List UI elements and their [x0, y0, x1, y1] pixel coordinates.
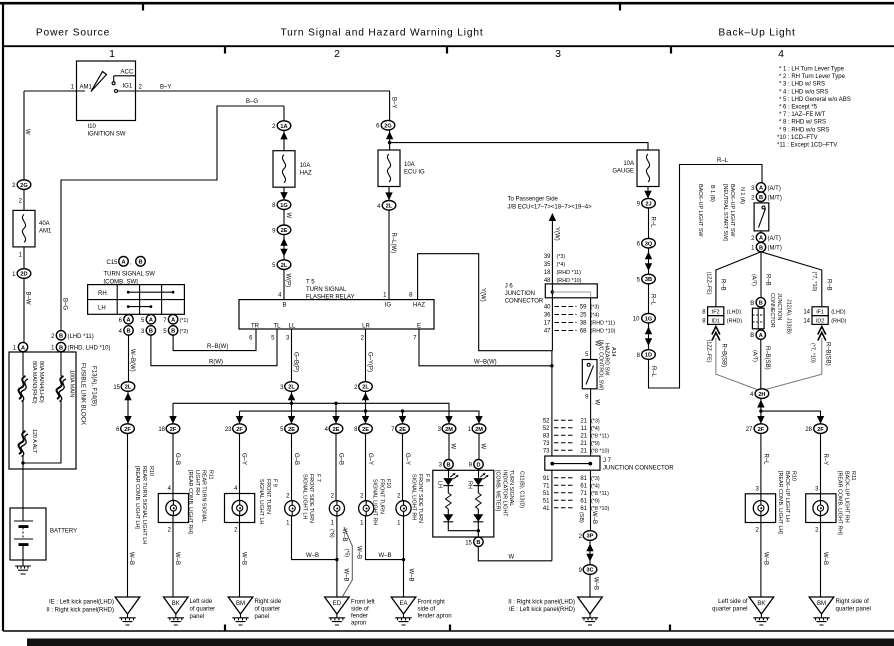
svg-text:3B: 3B — [645, 277, 652, 283]
svg-text:B: B — [171, 329, 175, 335]
svg-text:W–B: W–B — [822, 552, 828, 565]
svg-text:2L: 2L — [281, 263, 288, 269]
svg-text:fender apron: fender apron — [418, 614, 452, 620]
svg-text:W: W — [24, 129, 30, 135]
svg-text:side of: side of — [418, 607, 436, 613]
svg-text:Right side: Right side — [255, 599, 282, 605]
svg-text:W–B(W): W–B(W) — [474, 360, 497, 366]
svg-text:(1ZZ–FE): (1ZZ–FE) — [706, 340, 712, 363]
svg-text:Y(W): Y(W) — [480, 288, 486, 302]
svg-text:TURN SIGNAL SW: TURN SIGNAL SW — [104, 271, 156, 277]
svg-text:2E: 2E — [399, 427, 406, 433]
svg-text:*10 : 1CD–FTV: *10 : 1CD–FTV — [777, 135, 818, 141]
svg-text:Right side of: Right side of — [836, 599, 870, 605]
svg-text:2G: 2G — [20, 183, 27, 189]
svg-text:Back–Up Light: Back–Up Light — [718, 28, 795, 39]
svg-text:quarter panel: quarter panel — [712, 607, 747, 613]
svg-text:(*4): (*4) — [591, 484, 600, 490]
svg-text:B: B — [750, 301, 754, 307]
svg-text:18: 18 — [158, 427, 165, 433]
svg-text:(M/T): (M/T) — [768, 195, 782, 201]
svg-text:(*3): (*3) — [591, 476, 600, 482]
svg-text:F 8: F 8 — [424, 474, 430, 482]
svg-text:(*4): (*4) — [591, 426, 600, 432]
svg-text:R–B(SB): R–B(SB) — [764, 346, 770, 370]
svg-text:R–B(SB): R–B(SB) — [721, 344, 727, 368]
svg-text:W: W — [509, 554, 515, 560]
svg-text:TURN SIGNAL: TURN SIGNAL — [508, 470, 514, 506]
svg-text:81: 81 — [580, 476, 587, 482]
svg-text:R–B(W): R–B(W) — [207, 344, 228, 350]
svg-text:* 3 : LHD w/ SRS: * 3 : LHD w/ SRS — [779, 82, 825, 88]
svg-text:W: W — [450, 444, 456, 450]
svg-text:I10: I10 — [88, 124, 97, 130]
svg-text:4: 4 — [778, 48, 784, 60]
svg-text:(*8 *10): (*8 *10) — [591, 449, 609, 455]
svg-text:W–B: W–B — [174, 552, 180, 565]
svg-text:TURN SIGNAL: TURN SIGNAL — [306, 287, 347, 293]
svg-text:2F: 2F — [817, 427, 824, 433]
svg-text:[REAR COMB. LIGHT LH]: [REAR COMB. LIGHT LH] — [134, 466, 140, 529]
svg-text:G–B(P): G–B(P) — [293, 352, 299, 372]
svg-text:* 8 : RHD w/ SRS: * 8 : RHD w/ SRS — [779, 120, 826, 126]
svg-text:11: 11 — [581, 426, 588, 432]
svg-text:2L: 2L — [386, 204, 393, 210]
svg-text:W–B: W–B — [306, 553, 319, 559]
svg-text:A: A — [759, 186, 763, 192]
svg-text:T 5: T 5 — [306, 280, 315, 286]
svg-text:FRONT SIDE TURN: FRONT SIDE TURN — [417, 474, 423, 523]
svg-text:TR: TR — [251, 324, 260, 330]
svg-text:RH: RH — [466, 481, 472, 489]
svg-text:18: 18 — [544, 270, 551, 276]
svg-text:CONNECTOR: CONNECTOR — [505, 298, 544, 304]
svg-text:* 7 : 1AZ–FE M/T: * 7 : 1AZ–FE M/T — [779, 112, 826, 118]
svg-text:[A/C CONTROL SW]: [A/C CONTROL SW] — [597, 340, 603, 390]
svg-text:B: B — [759, 301, 763, 307]
svg-text:REAR TURN SIGNAL LIGHT LH: REAR TURN SIGNAL LIGHT LH — [141, 466, 147, 544]
svg-text:17: 17 — [544, 321, 551, 327]
svg-text:BM: BM — [236, 601, 245, 607]
svg-text:panel: panel — [255, 614, 270, 620]
svg-text:A: A — [759, 333, 763, 339]
svg-text:(*8 *11): (*8 *11) — [591, 434, 609, 440]
svg-text:10A: 10A — [623, 161, 634, 167]
svg-text:2M: 2M — [445, 427, 453, 433]
svg-text:73: 73 — [543, 449, 550, 455]
svg-text:G–B: G–B — [174, 453, 180, 465]
svg-text:21: 21 — [580, 434, 587, 440]
svg-text:47: 47 — [544, 329, 551, 335]
svg-text:SIGNAL LIGHT RH: SIGNAL LIGHT RH — [372, 479, 378, 525]
svg-text:F 9: F 9 — [272, 479, 278, 487]
svg-text:80A MAIN3(RHD): 80A MAIN3(RHD) — [31, 361, 37, 404]
svg-text:F 7: F 7 — [315, 474, 321, 482]
svg-text:21: 21 — [580, 441, 587, 447]
svg-text:R11: R11 — [850, 471, 856, 481]
svg-text:II : Right kick panel(LHD): II : Right kick panel(LHD) — [508, 600, 575, 606]
svg-text:A: A — [171, 318, 175, 324]
svg-text:A: A — [21, 345, 25, 351]
svg-text:(RHD): (RHD) — [727, 318, 742, 324]
svg-text:W–B: W–B — [240, 552, 246, 565]
svg-text:2G: 2G — [384, 123, 391, 129]
svg-text:(*9): (*9) — [591, 499, 600, 505]
svg-text:91: 91 — [543, 476, 550, 482]
svg-text:1A: 1A — [280, 124, 287, 130]
svg-text:R–Y: R–Y — [822, 454, 828, 466]
svg-text:* 6 : Except *5: * 6 : Except *5 — [779, 105, 818, 111]
svg-text:R–L: R–L — [763, 454, 769, 466]
svg-text:RH: RH — [98, 291, 107, 297]
svg-text:23: 23 — [225, 427, 232, 433]
svg-text:quarter panel: quarter panel — [836, 607, 871, 613]
svg-text:2L: 2L — [288, 385, 295, 391]
svg-text:IE : Left kick panel(RHD): IE : Left kick panel(RHD) — [509, 607, 575, 613]
svg-text:ID1: ID1 — [712, 318, 720, 324]
svg-text:JUNCTION: JUNCTION — [776, 293, 782, 320]
svg-text:Front right: Front right — [418, 600, 446, 606]
svg-text:R–L: R–L — [650, 294, 656, 306]
svg-text:HAZARD SW: HAZARD SW — [604, 343, 610, 376]
svg-text:R–B(SB): R–B(SB) — [825, 342, 831, 366]
svg-text:II : Right kick panel(RHD): II : Right kick panel(RHD) — [46, 608, 114, 614]
svg-text:(RHD): (RHD) — [831, 318, 846, 324]
svg-text:* 5 : LHD General w/o ABS: * 5 : LHD General w/o ABS — [779, 97, 851, 103]
svg-text:INDICATOR LIGHT: INDICATOR LIGHT — [501, 470, 507, 517]
svg-text:To Passenger Side: To Passenger Side — [508, 197, 559, 203]
svg-text:W–B: W–B — [355, 546, 361, 559]
svg-text:* 2 : RH Turn Lever Type: * 2 : RH Turn Lever Type — [779, 74, 846, 80]
svg-text:BACK–UP LIGHT SW: BACK–UP LIGHT SW — [729, 184, 735, 237]
svg-text:N 1 (A): N 1 (A) — [739, 187, 745, 204]
svg-text:Left side of: Left side of — [718, 599, 748, 605]
svg-text:1G: 1G — [280, 203, 287, 209]
svg-text:LR: LR — [362, 324, 370, 330]
svg-text:W–B: W–B — [763, 552, 769, 565]
svg-text:15: 15 — [113, 385, 120, 391]
svg-text:HAZ: HAZ — [300, 171, 312, 177]
svg-text:2F: 2F — [758, 427, 765, 433]
svg-text:B: B — [446, 462, 450, 468]
svg-text:51: 51 — [543, 491, 550, 497]
svg-text:CONNECTOR: CONNECTOR — [769, 293, 775, 328]
svg-text:[REAR COMB. LIGHT RH]: [REAR COMB. LIGHT RH] — [837, 471, 843, 535]
svg-text:(*9): (*9) — [591, 441, 600, 447]
svg-text:61: 61 — [580, 499, 587, 505]
svg-text:LH: LH — [436, 481, 442, 488]
svg-text:BK: BK — [172, 601, 180, 607]
svg-text:SIGNAL LIGHT RH: SIGNAL LIGHT RH — [410, 474, 416, 520]
svg-text:REAR TURN SIGNAL: REAR TURN SIGNAL — [201, 470, 207, 523]
svg-text:(RHD *10): (RHD *10) — [557, 278, 582, 284]
svg-text:2E: 2E — [288, 427, 295, 433]
svg-text:A: A — [126, 318, 130, 324]
svg-text:R–B: R–B — [826, 279, 832, 291]
svg-text:71: 71 — [543, 484, 550, 490]
svg-text:apron: apron — [351, 621, 366, 627]
svg-text:1: 1 — [109, 48, 115, 60]
svg-text:W–B: W–B — [379, 553, 392, 559]
svg-text:B–G: B–G — [62, 298, 68, 310]
svg-text:(*1): (*1) — [180, 318, 189, 324]
svg-text:B: B — [59, 334, 63, 340]
svg-text:G–Y(P): G–Y(P) — [367, 352, 373, 372]
svg-text:G–Y: G–Y — [367, 453, 373, 465]
svg-text:2L: 2L — [125, 385, 132, 391]
svg-text:Turn Signal and Hazard Warning: Turn Signal and Hazard Warning Light — [280, 28, 483, 39]
svg-text:R–B: R–B — [720, 279, 726, 291]
svg-text:side of: side of — [351, 607, 369, 613]
svg-text:AM1: AM1 — [39, 229, 52, 235]
svg-text:2E: 2E — [362, 427, 369, 433]
svg-text:R–L: R–L — [650, 217, 656, 229]
svg-text:38: 38 — [580, 321, 587, 327]
svg-text:J/B ECU<17–7><18–7><19–4>: J/B ECU<17–7><18–7><19–4> — [508, 205, 593, 211]
svg-text:(*7, *10): (*7, *10) — [810, 343, 816, 363]
svg-text:R10: R10 — [791, 471, 797, 481]
svg-text:of quarter: of quarter — [255, 607, 281, 613]
svg-text:10A: 10A — [300, 163, 311, 169]
svg-text:R–L(W): R–L(W) — [390, 233, 396, 254]
svg-text:[REAR COMB. LIGHT RH]: [REAR COMB. LIGHT RH] — [187, 470, 193, 534]
svg-text:(A/T): (A/T) — [752, 350, 758, 362]
svg-text:A: A — [759, 236, 763, 242]
svg-text:1D: 1D — [645, 353, 652, 359]
svg-text:A: A — [149, 318, 153, 324]
svg-text:(*4): (*4) — [591, 313, 600, 319]
svg-text:W–B: W–B — [343, 569, 349, 582]
svg-text:(M/T): (M/T) — [768, 246, 782, 252]
svg-text:IG1: IG1 — [123, 84, 133, 90]
svg-text:(*8 *11): (*8 *11) — [591, 491, 609, 497]
svg-text:2F: 2F — [170, 427, 177, 433]
svg-text:Y(W): Y(W) — [553, 227, 559, 241]
svg-text:(A/T): (A/T) — [751, 274, 757, 286]
svg-text:10A: 10A — [404, 162, 415, 168]
svg-text:IF2: IF2 — [712, 310, 720, 316]
svg-text:BK: BK — [757, 601, 765, 607]
svg-text:(A/T): (A/T) — [768, 236, 781, 242]
svg-text:120 A ALT: 120 A ALT — [31, 429, 37, 454]
svg-text:21: 21 — [580, 449, 587, 455]
svg-text:35: 35 — [544, 262, 551, 268]
svg-text:(SB): (SB) — [578, 512, 584, 523]
svg-text:(RHD *10): (RHD *10) — [591, 329, 616, 335]
svg-text:R10: R10 — [148, 466, 154, 476]
svg-text:FUSIBLE LINK BLOCK: FUSIBLE LINK BLOCK — [80, 363, 86, 425]
svg-text:3: 3 — [555, 48, 561, 60]
svg-text:10: 10 — [633, 317, 640, 323]
svg-text:FLASHER RELAY: FLASHER RELAY — [306, 295, 355, 301]
svg-text:IG: IG — [385, 303, 392, 309]
svg-text:A14: A14 — [610, 347, 616, 357]
svg-text:71: 71 — [580, 491, 587, 497]
svg-text:36: 36 — [544, 313, 551, 319]
svg-text:C15: C15 — [107, 260, 119, 266]
svg-text:15: 15 — [465, 540, 472, 546]
svg-text:IF1: IF1 — [816, 310, 824, 316]
svg-text:fender: fender — [351, 614, 368, 620]
svg-text:J 6: J 6 — [505, 283, 514, 289]
svg-text:B–W: B–W — [25, 292, 31, 305]
svg-text:LL: LL — [289, 324, 296, 330]
svg-text:52: 52 — [543, 419, 550, 425]
svg-text:B–Y: B–Y — [390, 97, 396, 108]
svg-text:C11(B), C13(D): C11(B), C13(D) — [519, 471, 525, 508]
svg-text:27: 27 — [746, 427, 753, 433]
svg-text:(LHD): (LHD) — [831, 310, 846, 316]
svg-text:W(P): W(P) — [285, 274, 291, 288]
svg-text:A: A — [121, 260, 125, 266]
svg-text:FRONT TURN: FRONT TURN — [265, 479, 271, 514]
svg-text:ID2: ID2 — [816, 318, 824, 324]
svg-text:80A MAIN4(LHD): 80A MAIN4(LHD) — [38, 361, 44, 403]
svg-text:of quarter: of quarter — [190, 607, 216, 613]
svg-text:W: W — [285, 213, 291, 219]
svg-text:ECU IG: ECU IG — [404, 170, 425, 176]
svg-text:Front left: Front left — [351, 600, 375, 606]
svg-text:[REAR COMB. LIGHT LH]: [REAR COMB. LIGHT LH] — [777, 471, 783, 534]
svg-text:G–B: G–B — [293, 453, 299, 465]
svg-text:D: D — [476, 462, 480, 468]
svg-text:(*4): (*4) — [557, 262, 566, 268]
svg-text:G–Y: G–Y — [404, 453, 410, 465]
svg-text:G–B: G–B — [338, 453, 344, 465]
svg-text:3Q: 3Q — [645, 241, 653, 247]
svg-text:2E: 2E — [333, 427, 340, 433]
svg-text:W–B: W–B — [128, 552, 134, 565]
svg-text:R(W): R(W) — [209, 359, 223, 365]
svg-text:14: 14 — [803, 318, 810, 324]
svg-text:14: 14 — [803, 310, 810, 316]
svg-text:W–B(W): W–B(W) — [129, 349, 135, 372]
svg-text:2E: 2E — [281, 228, 288, 234]
svg-text:JUNCTION: JUNCTION — [505, 291, 535, 297]
svg-text:(A/T): (A/T) — [768, 186, 781, 192]
svg-text:2J: 2J — [645, 201, 651, 207]
svg-text:GAUGE: GAUGE — [612, 169, 634, 175]
svg-text:*11 : Except 1CD–FTV: *11 : Except 1CD–FTV — [777, 143, 837, 149]
svg-text:LH: LH — [98, 306, 106, 312]
svg-text:R–L: R–L — [717, 158, 729, 164]
svg-text:Left side: Left side — [190, 599, 213, 605]
svg-text:100A MAIN: 100A MAIN — [69, 370, 75, 397]
svg-text:40: 40 — [544, 305, 551, 311]
svg-text:3C: 3C — [586, 568, 593, 574]
svg-text:B–G: B–G — [246, 99, 258, 105]
svg-text:2L: 2L — [362, 385, 369, 391]
svg-text:BACK–UP LIGHT RH: BACK–UP LIGHT RH — [843, 471, 849, 523]
svg-text:R–B: R–B — [765, 274, 771, 286]
svg-text:(*3): (*3) — [591, 305, 600, 311]
svg-text:(*2): (*2) — [180, 329, 189, 335]
svg-text:BACK–UP LIGHT SW: BACK–UP LIGHT SW — [697, 184, 703, 237]
svg-text:panel: panel — [190, 614, 205, 620]
svg-text:BACK–UP LIGHT LH: BACK–UP LIGHT LH — [784, 471, 790, 522]
svg-text:73: 73 — [543, 441, 550, 447]
svg-text:FRONT TURN: FRONT TURN — [378, 479, 384, 514]
svg-text:B: B — [759, 245, 763, 251]
svg-text:SIGNAL LIGHT LH: SIGNAL LIGHT LH — [301, 474, 307, 519]
svg-text:LIGHT RH: LIGHT RH — [194, 470, 200, 495]
svg-text:(*7, *10): (*7, *10) — [811, 272, 817, 292]
svg-text:TL: TL — [273, 324, 281, 330]
svg-text:B: B — [126, 329, 130, 335]
svg-text:3P: 3P — [587, 534, 594, 540]
svg-text:(RHD *11): (RHD *11) — [557, 270, 582, 276]
svg-text:2F: 2F — [236, 427, 243, 433]
svg-text:52: 52 — [543, 426, 550, 432]
svg-text:(*6): (*6) — [329, 529, 335, 538]
svg-text:(*3): (*3) — [557, 254, 566, 260]
svg-text:B: B — [59, 345, 63, 351]
svg-text:FRONT SIDE TURN: FRONT SIDE TURN — [308, 474, 314, 523]
svg-text:(1ZZ–FE): (1ZZ–FE) — [706, 272, 712, 295]
svg-text:Power Source: Power Source — [36, 28, 110, 39]
svg-text:83: 83 — [543, 434, 550, 440]
svg-text:* 9 : RHD w/o SRS: * 9 : RHD w/o SRS — [779, 127, 829, 133]
svg-text:48: 48 — [544, 278, 551, 284]
svg-text:[COMB. METER]: [COMB. METER] — [495, 470, 501, 512]
svg-text:28: 28 — [805, 427, 812, 433]
svg-text:BM: BM — [817, 601, 826, 607]
svg-text:61: 61 — [580, 484, 587, 490]
svg-text:(RHD, LHD *10): (RHD, LHD *10) — [68, 346, 111, 352]
svg-text:B: B — [759, 195, 763, 201]
svg-text:2F: 2F — [124, 427, 131, 433]
svg-text:R11: R11 — [208, 470, 214, 480]
svg-text:40A: 40A — [39, 221, 50, 227]
svg-text:ACC: ACC — [121, 70, 134, 76]
svg-text:B: B — [149, 329, 153, 335]
svg-text:G–Y: G–Y — [240, 453, 246, 465]
svg-text:B: B — [282, 303, 286, 309]
svg-text:B: B — [750, 333, 754, 339]
svg-text:25: 25 — [580, 313, 587, 319]
svg-text:B: B — [476, 540, 480, 546]
svg-text:2M: 2M — [475, 427, 483, 433]
svg-text:21: 21 — [580, 419, 587, 425]
svg-text:(RHD *11): (RHD *11) — [591, 321, 616, 327]
svg-text:2D: 2D — [20, 272, 27, 278]
svg-text:* 4 : LHD w/o SRS: * 4 : LHD w/o SRS — [779, 89, 828, 95]
svg-text:IGNITION SW: IGNITION SW — [88, 132, 126, 138]
svg-text:ED: ED — [333, 601, 342, 607]
svg-text:J12(A), J13(B): J12(A), J13(B) — [786, 299, 792, 334]
svg-text:JUNCTION CONNECTOR: JUNCTION CONNECTOR — [603, 465, 674, 471]
svg-text:* 1 : LH Turn Lever Type: * 1 : LH Turn Lever Type — [779, 67, 845, 73]
svg-text:(LHD *11): (LHD *11) — [68, 334, 94, 340]
svg-text:68: 68 — [580, 329, 587, 335]
svg-text:W–B: W–B — [591, 511, 597, 524]
svg-text:41: 41 — [543, 506, 550, 512]
svg-text:(*3): (*3) — [591, 419, 600, 425]
svg-text:B 1 (B): B 1 (B) — [709, 185, 715, 202]
svg-text:2: 2 — [334, 48, 340, 60]
svg-text:51: 51 — [543, 499, 550, 505]
svg-text:[NEUTRAL START SW]: [NEUTRAL START SW] — [722, 184, 728, 241]
svg-text:(LHD): (LHD) — [727, 310, 742, 316]
svg-text:F13(A), F14(B): F13(A), F14(B) — [91, 366, 97, 406]
svg-text:R–L: R–L — [650, 366, 656, 378]
svg-text:59: 59 — [580, 305, 587, 311]
svg-text:1G: 1G — [645, 316, 652, 322]
svg-text:EA: EA — [399, 601, 407, 607]
svg-text:IE : Left kick panel(LHD): IE : Left kick panel(LHD) — [49, 600, 114, 606]
svg-text:(*5): (*5) — [344, 549, 350, 558]
svg-text:B–Y: B–Y — [160, 85, 171, 91]
